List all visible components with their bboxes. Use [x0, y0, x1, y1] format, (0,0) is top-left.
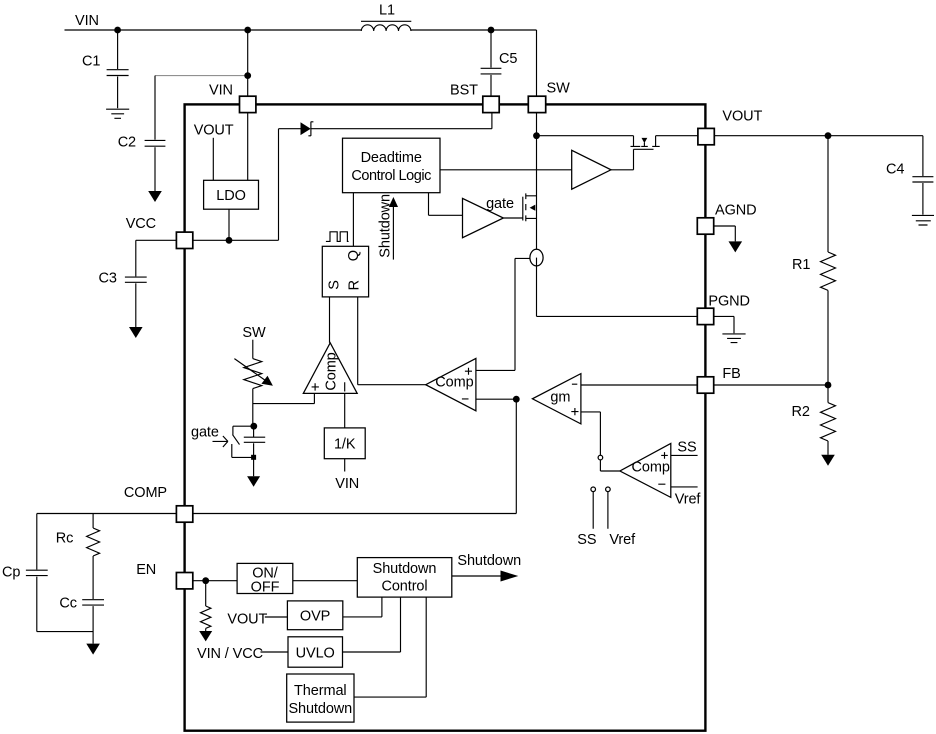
svg-text:C1: C1 [82, 54, 100, 70]
wire diode to BST pin [311, 113, 492, 129]
resistor R2 [792, 385, 836, 455]
capacitor C2 [118, 76, 166, 191]
ground arrow under R2 [821, 455, 835, 466]
svg-text:L1: L1 [379, 2, 395, 18]
svg-text:SS: SS [677, 440, 696, 456]
svg-text:Shutdown: Shutdown [373, 561, 437, 577]
pin PGND [697, 294, 750, 325]
svg-text:C3: C3 [99, 271, 117, 287]
wire VCC pin to C3 [136, 240, 177, 276]
IC boundary rectangle [185, 104, 706, 730]
svg-text:VIN: VIN [75, 13, 99, 29]
pin VOUT [698, 109, 763, 145]
wire FB pin to divider [714, 384, 828, 386]
svg-text:SW: SW [547, 80, 571, 96]
wire VIN drop to VIN pin [247, 30, 249, 96]
node junction dot SW [533, 132, 540, 139]
svg-text:R2: R2 [792, 404, 810, 420]
node junction dot VIN/C1 [114, 27, 121, 34]
svg-text:Cp: Cp [2, 565, 20, 581]
wire AGND pin to ground arrow [714, 226, 736, 241]
pin VCC [126, 216, 193, 249]
wire SS comp plus input [671, 454, 698, 456]
capacitor Cp [2, 514, 93, 632]
svg-text:Comp: Comp [324, 352, 340, 390]
node gate label (cap) with arrow [191, 424, 228, 447]
svg-text:UVLO: UVLO [296, 645, 335, 661]
wire VCC pin to bootstrap diode [193, 129, 301, 241]
wire driver output to pass FET gate [611, 149, 654, 170]
Shutdown Control box [357, 558, 452, 598]
wire VIN pin to LDO [247, 113, 249, 181]
1/K divider box [324, 428, 365, 459]
node junction dot SW/C5 [488, 27, 495, 34]
pin VIN [209, 83, 256, 113]
wire C2 to VIN node [155, 75, 248, 77]
wire VOUT pin to C4 [714, 136, 923, 176]
svg-text:R: R [347, 280, 363, 290]
wire PGND pin to ground [714, 316, 734, 333]
wire SW pin down [536, 113, 538, 250]
svg-text:C4: C4 [886, 162, 904, 178]
svg-text:S: S [326, 280, 342, 290]
transistor pass FET (high side) [631, 136, 660, 147]
ground arrow EN [199, 631, 212, 641]
wire VOUT to OVP [265, 616, 288, 618]
Deadtime Control Logic box [343, 138, 441, 193]
node Shutdown rotated label with arrow [377, 194, 398, 260]
pin FB [697, 366, 740, 393]
svg-text:1/K: 1/K [334, 437, 356, 453]
op-amp current comparator [426, 358, 476, 410]
svg-text:Comp: Comp [632, 459, 670, 475]
capacitor C1 [82, 30, 129, 108]
wire current comp minus input [476, 398, 516, 400]
node junction dot VOUT/R1 [825, 132, 832, 139]
svg-text:R1: R1 [792, 257, 810, 273]
svg-text:Vref: Vref [609, 532, 636, 548]
ground under C4 [912, 215, 934, 225]
svg-text:Shutdown: Shutdown [457, 553, 521, 569]
Thermal Shutdown box [287, 674, 354, 722]
wire ON/OFF to Shutdown Control [293, 580, 358, 582]
LDO U-LDO box [204, 180, 259, 209]
pin SW [528, 80, 570, 112]
svg-text:SW: SW [242, 325, 266, 341]
capacitor C3 [99, 271, 147, 328]
svg-text:Thermal: Thermal [294, 683, 346, 699]
wire 1/K to slope comp minus [344, 393, 346, 428]
wire Thermal Shutdown to Shutdown Control [354, 597, 426, 697]
op-amp gm error amplifier [532, 374, 581, 424]
wire COMP net down and to COMP pin [193, 399, 517, 513]
svg-text:PGND: PGND [708, 294, 750, 310]
UVLO box [288, 637, 343, 667]
svg-text:gm: gm [550, 390, 570, 406]
svg-text:VOUT: VOUT [227, 611, 267, 627]
ON/OFF box [237, 563, 293, 595]
svg-text:VIN / VCC: VIN / VCC [197, 646, 263, 662]
svg-text:C2: C2 [118, 134, 136, 150]
current source I1 [530, 249, 543, 266]
svg-text:Rc: Rc [56, 531, 74, 547]
wire sawtooth to MOS cap [252, 389, 255, 427]
capacitor MOS gate cap [232, 426, 265, 476]
svg-text:Shutdown: Shutdown [288, 701, 352, 717]
ground arrow under C3 [129, 327, 143, 338]
wire gate driver output [503, 217, 522, 219]
wire VIN/VCC to UVLO [261, 651, 289, 653]
svg-text:VOUT: VOUT [722, 109, 762, 125]
svg-text:VOUT: VOUT [194, 122, 234, 138]
svg-text:VIN: VIN [209, 83, 233, 99]
node junction dot C2/VIN pin [244, 72, 251, 79]
wire current source to PGND [537, 266, 698, 317]
wire latch S input from slope comp [329, 297, 331, 343]
wire LDO output to VCC rail [228, 209, 230, 240]
node junction dot EN [202, 577, 209, 584]
node junction dot LDO/VCC [226, 237, 233, 244]
latch U2 SR [322, 246, 368, 297]
svg-text:AGND: AGND [715, 203, 757, 219]
svg-text:Control Logic: Control Logic [351, 168, 431, 184]
op-amp gate driver [463, 198, 504, 237]
wire SS comp minus input [671, 486, 698, 488]
wire EN pin to ON/OFF [193, 580, 237, 582]
wire VIN top rail [65, 30, 537, 96]
node junction dot cap [250, 423, 257, 430]
wire VOUT label stub to LDO [212, 138, 214, 181]
svg-text:COMP: COMP [124, 485, 167, 501]
diode bootstrap [301, 122, 314, 136]
wire current comp plus input [476, 369, 515, 371]
pin EN [136, 562, 193, 589]
wire current comp output to latch R [358, 297, 426, 385]
pulse waveform glyph [326, 232, 349, 242]
svg-text:LDO: LDO [216, 188, 246, 204]
svg-text:gate: gate [486, 196, 514, 212]
op-amp slope comp [303, 343, 357, 394]
wire Deadtime to high-side driver [440, 169, 572, 171]
wire slope comp plus input [253, 393, 315, 403]
transistor low-side FET [523, 193, 537, 221]
wire Deadtime to gate driver [429, 193, 463, 216]
svg-text:OFF: OFF [251, 580, 280, 596]
OVP box [287, 601, 342, 630]
svg-text:Control: Control [381, 579, 427, 595]
ground arrow compensation [86, 644, 100, 655]
svg-text:EN: EN [136, 562, 156, 578]
pin COMP [124, 485, 193, 522]
svg-text:VCC: VCC [126, 216, 156, 232]
svg-text:SS: SS [577, 532, 596, 548]
wire UVLO to Shutdown Control [343, 597, 401, 652]
wire gm plus input to switch [581, 412, 601, 455]
wire latch Q to Deadtime [352, 193, 354, 247]
wire current sense to comparator [515, 258, 530, 370]
wire gm minus input to FB [581, 384, 697, 386]
ground under PGND [722, 334, 745, 343]
op-amp soft-start comparator [620, 443, 671, 497]
svg-text:Comp: Comp [435, 375, 473, 391]
svg-text:C5: C5 [499, 51, 517, 67]
wire SW node to pass FET [537, 135, 634, 137]
resistor Rc [56, 514, 100, 600]
capacitor Cc [59, 596, 104, 644]
svg-text:BST: BST [450, 83, 478, 99]
svg-text:gate: gate [191, 424, 219, 440]
node junction dot FB/R1/R2 [825, 382, 832, 389]
svg-text:FB: FB [722, 366, 740, 382]
ground under C1 [106, 109, 129, 118]
node junction dot COMP net [513, 396, 520, 403]
capacitor C5 [481, 30, 518, 96]
wire OVP to Shutdown Control [343, 597, 382, 617]
svg-text:Vref: Vref [675, 492, 702, 508]
resistor variable sawtooth [234, 359, 273, 389]
svg-text:Deadtime: Deadtime [361, 150, 422, 166]
resistor R1 [792, 136, 836, 385]
resistor EN pulldown [201, 581, 211, 631]
pin BST [450, 83, 499, 113]
capacitor C4 [886, 162, 933, 215]
svg-text:Q: Q [346, 250, 362, 261]
wire Shutdown output arrow [452, 571, 519, 582]
ground arrow AGND [729, 241, 743, 252]
inductor L1 [361, 2, 411, 31]
svg-text:Cc: Cc [59, 596, 77, 612]
wire pass FET to VOUT pin [656, 135, 698, 137]
switch SS/Vref selector [591, 455, 620, 528]
wire 1/K to VIN stub [344, 459, 346, 472]
op-amp high-side driver [572, 150, 611, 189]
svg-text:VIN: VIN [335, 476, 359, 492]
wire COMP pin to compensation network [37, 513, 177, 515]
svg-text:OVP: OVP [300, 608, 330, 624]
pin AGND [697, 203, 756, 235]
ground arrow under C2 [148, 191, 162, 202]
ground arrow under MOS cap [247, 476, 260, 486]
wire SW label stub [252, 340, 254, 359]
node junction dot VIN/IC [244, 27, 251, 34]
